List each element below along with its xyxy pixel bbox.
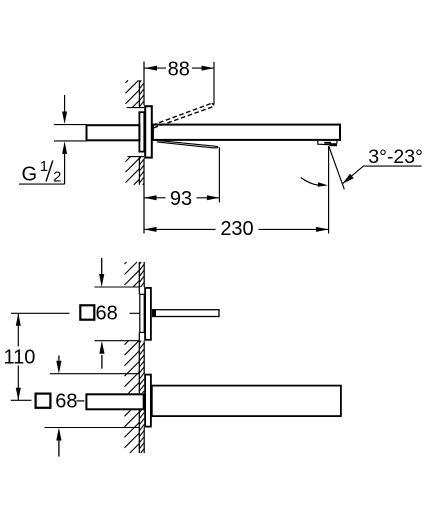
flange lower (bottom view) bbox=[145, 375, 151, 427]
upper unit: extension line top bbox=[95, 286, 140, 288]
svg-text:93: 93 bbox=[170, 188, 192, 210]
upper unit centre line bbox=[11, 312, 70, 314]
in-wall body (bottom view upper) bbox=[140, 294, 144, 332]
wall cutout edges (top view) bbox=[127, 107, 144, 109]
dimension 230 bbox=[144, 228, 216, 230]
spout underside edge sliver bbox=[156, 140, 218, 148]
svg-text:230: 230 bbox=[220, 218, 253, 240]
svg-text:2: 2 bbox=[53, 169, 61, 186]
svg-text:3°-23°: 3°-23° bbox=[368, 146, 423, 168]
arc arrow (spray adjustment) bbox=[301, 178, 320, 186]
wall flange / escutcheon (top view) bbox=[145, 106, 152, 157]
water stream line / 230 extension bbox=[328, 146, 330, 234]
square symbol lower bbox=[36, 394, 51, 408]
extension line 88 right (lever tip) bbox=[213, 62, 215, 105]
G 1/2 leader bbox=[19, 183, 65, 185]
wall back line (bottom view) bbox=[138, 262, 140, 294]
lever bar bbox=[153, 310, 219, 317]
in-wall body (top view) bbox=[139, 112, 144, 151]
lower unit centre line bbox=[11, 399, 32, 401]
lower unit: extension line bottom bbox=[44, 427, 139, 429]
spout (top view) bbox=[153, 125, 340, 140]
leader dash lower 68 bbox=[77, 400, 85, 402]
spout bar (bottom view) bbox=[152, 386, 341, 417]
svg-text:68: 68 bbox=[96, 303, 118, 325]
spray angle line bbox=[329, 146, 345, 189]
flange upper (bottom view) bbox=[145, 288, 151, 340]
wall back line (top view) bbox=[138, 80, 140, 107]
svg-text:1: 1 bbox=[40, 158, 48, 175]
supply pipe thick section bbox=[87, 125, 140, 140]
upper 68 arrow bottom bbox=[101, 355, 103, 369]
upper unit: extension line bottom bbox=[95, 340, 140, 342]
svg-text:68: 68 bbox=[55, 390, 77, 412]
leader line 3-23 deg bbox=[343, 166, 422, 184]
wall hatching (bottom view) bbox=[125, 262, 127, 264]
dimension 88 bbox=[145, 67, 167, 69]
svg-text:88: 88 bbox=[168, 58, 190, 80]
svg-text:110: 110 bbox=[4, 347, 36, 369]
lever handle hidden lines (dashed) bbox=[152, 103, 212, 125]
lever base block bbox=[153, 310, 156, 316]
extension line 93 right bbox=[218, 147, 220, 202]
in-wall body bar (bottom view lower) bbox=[86, 394, 143, 409]
dimension 93 bbox=[144, 197, 166, 199]
square symbol upper bbox=[80, 305, 94, 319]
wall hatching lower (top view) bbox=[126, 157, 131, 162]
wall hatching upper (top view) bbox=[126, 80, 129, 83]
G 1/2 arrows bbox=[64, 95, 66, 112]
lower unit: extension line top bbox=[50, 373, 139, 375]
aerator outlet bbox=[318, 141, 337, 145]
svg-text:G: G bbox=[22, 164, 38, 186]
supply pipe thin section bbox=[54, 124, 87, 126]
dimension 110 bbox=[17, 313, 19, 346]
lower 68 arrow top bbox=[58, 356, 60, 361]
wall front face line (top view, also dim extension) bbox=[143, 62, 145, 106]
upper 68 arrow top bbox=[101, 258, 103, 275]
lower 68 arrow bottom bbox=[58, 441, 60, 457]
wall front line (bottom view) bbox=[143, 262, 145, 287]
